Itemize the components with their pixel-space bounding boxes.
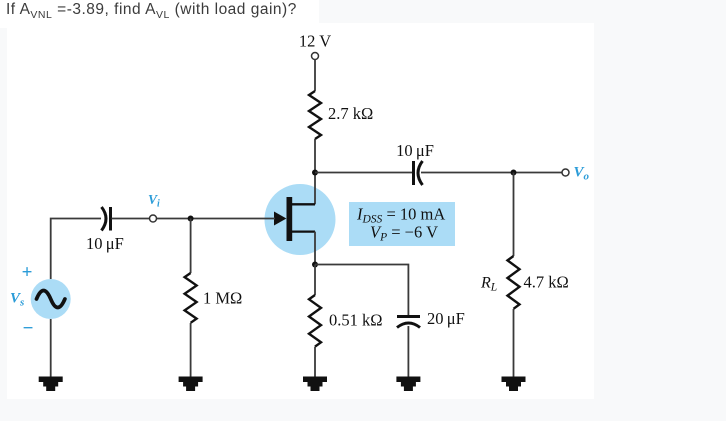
- svg-text:12 V: 12 V: [299, 32, 331, 51]
- transistor gate arrowhead: [274, 212, 286, 226]
- svg-text:2.7 kΩ: 2.7 kΩ: [328, 104, 373, 123]
- wire RD to drain: [314, 139, 316, 204]
- capacitor CS 20uF plate flat: [397, 315, 420, 318]
- svg-text:20 μF: 20 μF: [427, 309, 465, 328]
- ground Vs: [39, 377, 63, 392]
- resistor RS 0.51k: [309, 295, 321, 347]
- svg-text:0.51 kΩ: 0.51 kΩ: [329, 311, 383, 330]
- capacitor CS 20uF plate curved: [397, 323, 420, 328]
- svg-text:10 μF: 10 μF: [396, 141, 434, 160]
- capacitor C2 10uF plate curved: [418, 161, 423, 185]
- wire source node to CS: [315, 265, 408, 317]
- svg-text:−: −: [23, 318, 34, 339]
- resistor RG 1M: [185, 273, 197, 323]
- wire Vs to ground: [50, 319, 52, 378]
- svg-text:Vi: Vi: [148, 192, 160, 210]
- ground RG: [179, 377, 203, 392]
- transistor drain lead: [292, 203, 315, 205]
- wire junction to RG: [190, 219, 192, 274]
- wire Vo node to RL: [513, 173, 515, 257]
- ground RL: [502, 377, 526, 392]
- info box: [349, 202, 455, 246]
- source Vs sine wave: [37, 291, 65, 308]
- ground CS: [396, 377, 420, 392]
- wire Vi to gate: [157, 218, 276, 220]
- svg-text:+: +: [22, 262, 33, 283]
- svg-text:1 MΩ: 1 MΩ: [203, 289, 242, 308]
- svg-text:Vs: Vs: [10, 291, 24, 309]
- wire RS to ground: [314, 347, 316, 378]
- node gate junction: [188, 216, 194, 222]
- svg-text:10 μF: 10 μF: [86, 234, 124, 253]
- wire source node to RS: [314, 265, 316, 296]
- svg-text:Vo: Vo: [574, 165, 590, 183]
- resistor RD 2.7k: [309, 91, 321, 139]
- node Vo junction: [511, 170, 517, 176]
- transistor JFET channel bar: [287, 197, 293, 241]
- JFET body circle: [265, 184, 336, 255]
- transistor source lead: [292, 230, 315, 232]
- wire drain node to C2: [315, 172, 412, 174]
- source Vs circle: [31, 279, 71, 319]
- capacitor C2 10uF plate flat: [412, 161, 415, 185]
- capacitor C1 10uF plate curved: [102, 207, 107, 231]
- ground RS: [303, 377, 327, 392]
- svg-text:RL: RL: [480, 275, 497, 294]
- wire Vs to C1: [51, 219, 101, 280]
- terminal Vi: [150, 215, 157, 222]
- wire source to node: [314, 232, 316, 265]
- 12V supply terminal: [312, 53, 319, 60]
- resistor RL 4.7k: [508, 256, 520, 309]
- node source junction: [312, 262, 318, 268]
- svg-text:4.7 kΩ: 4.7 kΩ: [524, 273, 569, 292]
- wire C2 to Vo: [421, 172, 562, 174]
- wire C1 to Vi: [112, 218, 150, 220]
- wire CS to ground: [407, 326, 409, 378]
- terminal Vo: [562, 169, 569, 176]
- node drain junction: [312, 170, 318, 176]
- capacitor C1 10uF plate flat: [109, 207, 112, 231]
- wire RG to ground: [190, 323, 192, 378]
- wire supply to RD: [314, 60, 316, 92]
- wire RL to ground: [513, 309, 515, 378]
